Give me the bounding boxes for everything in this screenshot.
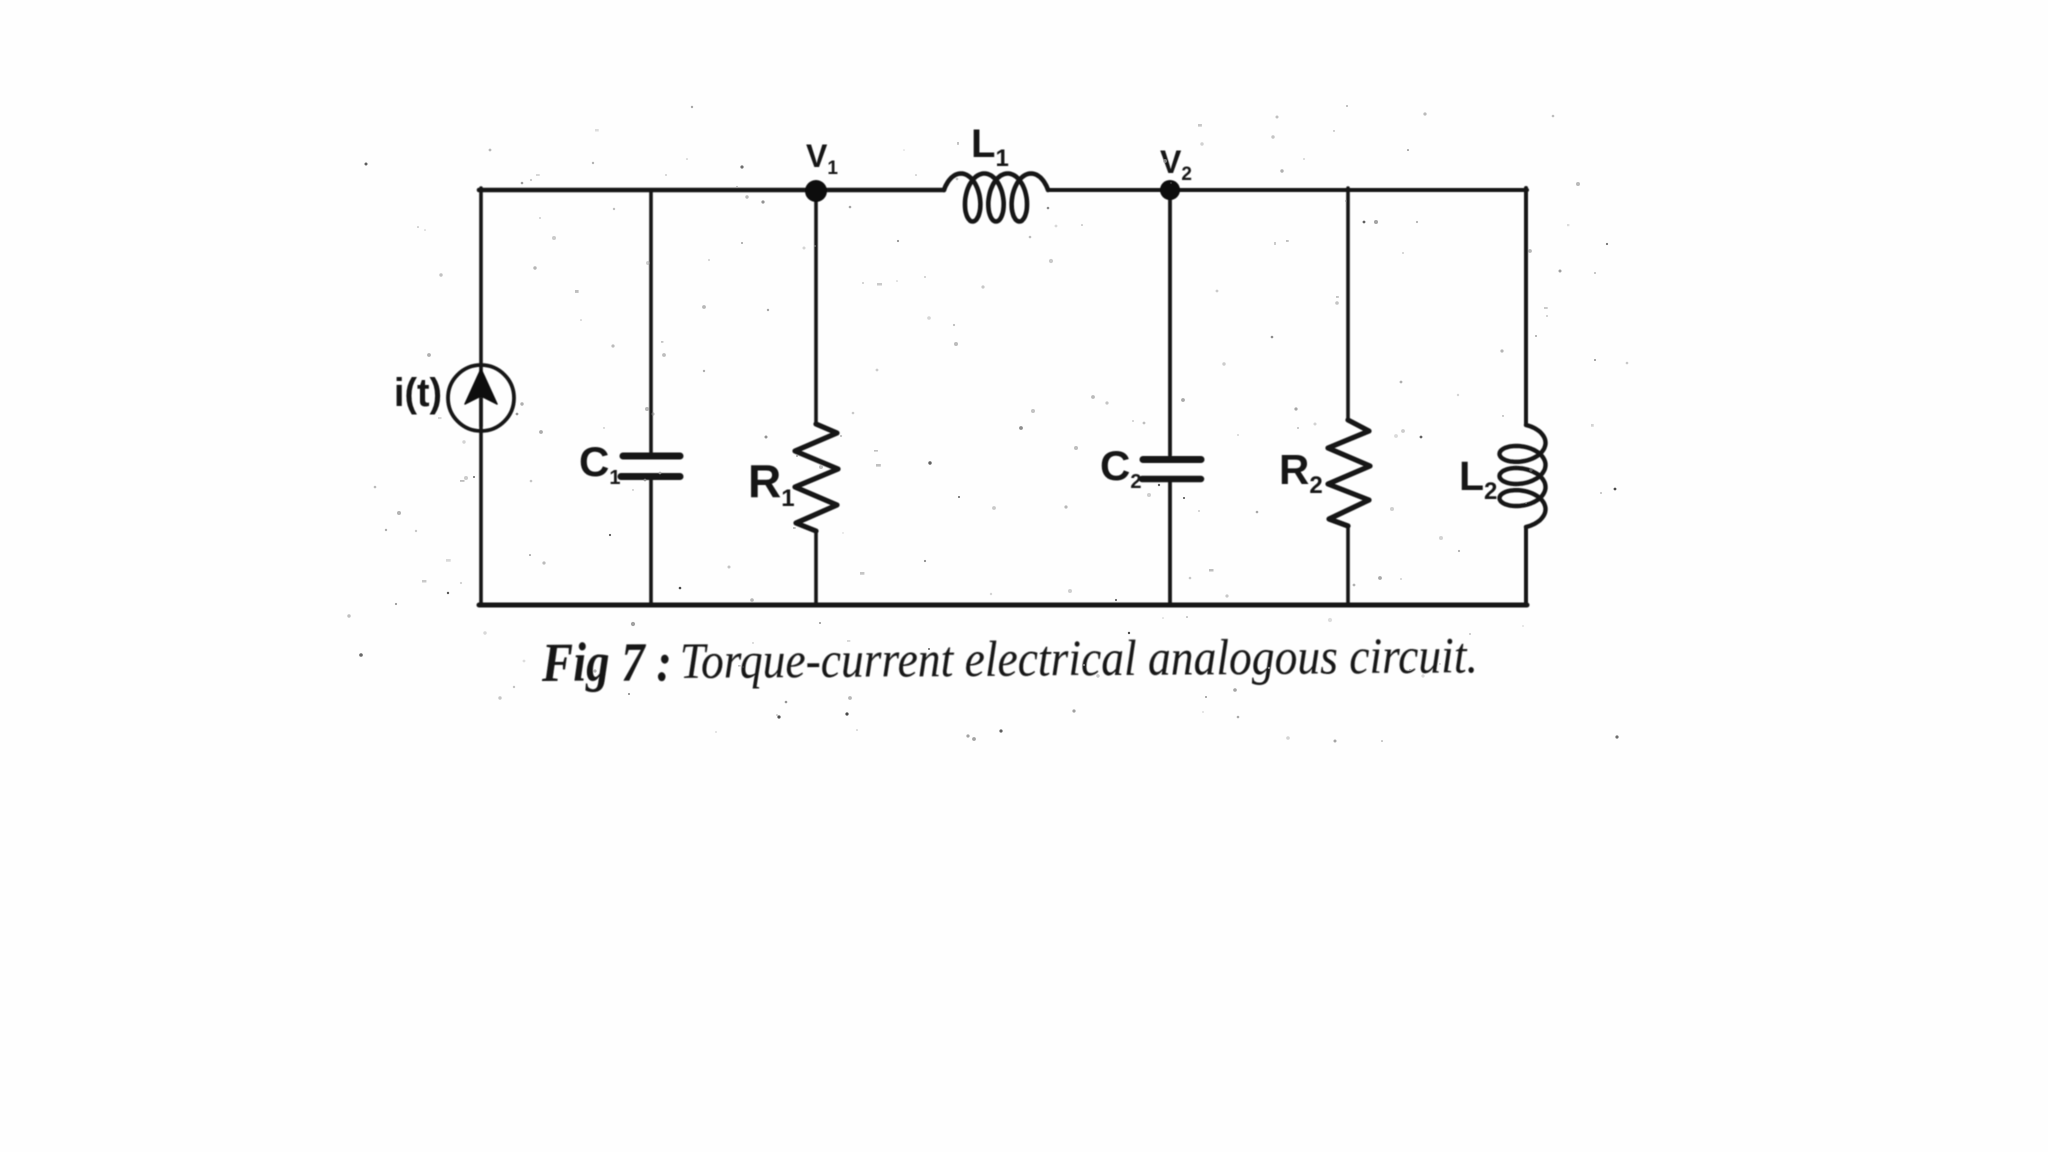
node V1 junction dot <box>805 180 827 202</box>
wire bottom <box>479 603 1527 608</box>
capacitor C1 bottom lead <box>649 480 653 605</box>
wire right vertical bottom <box>1524 527 1528 605</box>
inductor L2 coil <box>1500 425 1546 527</box>
capacitor C2 bottom plate <box>1142 476 1201 483</box>
svg-text:i(t): i(t) <box>394 371 442 415</box>
svg-text:V1: V1 <box>806 138 838 179</box>
caption Fig 7 <box>541 625 1478 693</box>
capacitor C2 top lead <box>1168 190 1172 455</box>
current source arrowhead <box>465 369 497 404</box>
resistor R1 bottom lead <box>814 531 818 605</box>
capacitor C1 top lead <box>649 190 653 452</box>
current source i(t) circle <box>448 365 514 431</box>
svg-text:Torque-current electrical anal: Torque-current electrical analogous circ… <box>680 628 1478 690</box>
svg-text:V2: V2 <box>1160 144 1192 185</box>
svg-text:L2: L2 <box>1459 453 1497 505</box>
resistor R1 top lead <box>814 191 818 424</box>
node V2 junction dot <box>1160 180 1180 200</box>
resistor R2 bottom lead <box>1346 526 1350 605</box>
svg-text:C2: C2 <box>1100 442 1141 493</box>
wire top left segment <box>479 188 944 193</box>
capacitor C1 bottom plate <box>621 473 680 480</box>
capacitor C1 top plate <box>623 453 680 460</box>
wire top right segment <box>1048 188 1527 192</box>
wire left vertical <box>479 188 483 605</box>
svg-text:R1: R1 <box>748 455 795 512</box>
svg-text:R2: R2 <box>1279 446 1323 499</box>
resistor R2 zigzag <box>1328 420 1370 526</box>
svg-text:Fig 7 :: Fig 7 : <box>541 631 672 693</box>
scan speckle noise (decorative) <box>347 105 1628 742</box>
resistor R2 top lead <box>1346 188 1350 420</box>
svg-text:L1: L1 <box>971 122 1009 172</box>
svg-text:C1: C1 <box>579 438 620 489</box>
inductor L1 coil <box>944 174 1048 222</box>
resistor R1 zigzag <box>795 424 838 531</box>
capacitor C2 top plate <box>1143 456 1201 463</box>
wire right vertical top <box>1524 188 1528 425</box>
capacitor C2 bottom lead <box>1168 482 1172 605</box>
current source arrow shaft <box>479 380 483 426</box>
